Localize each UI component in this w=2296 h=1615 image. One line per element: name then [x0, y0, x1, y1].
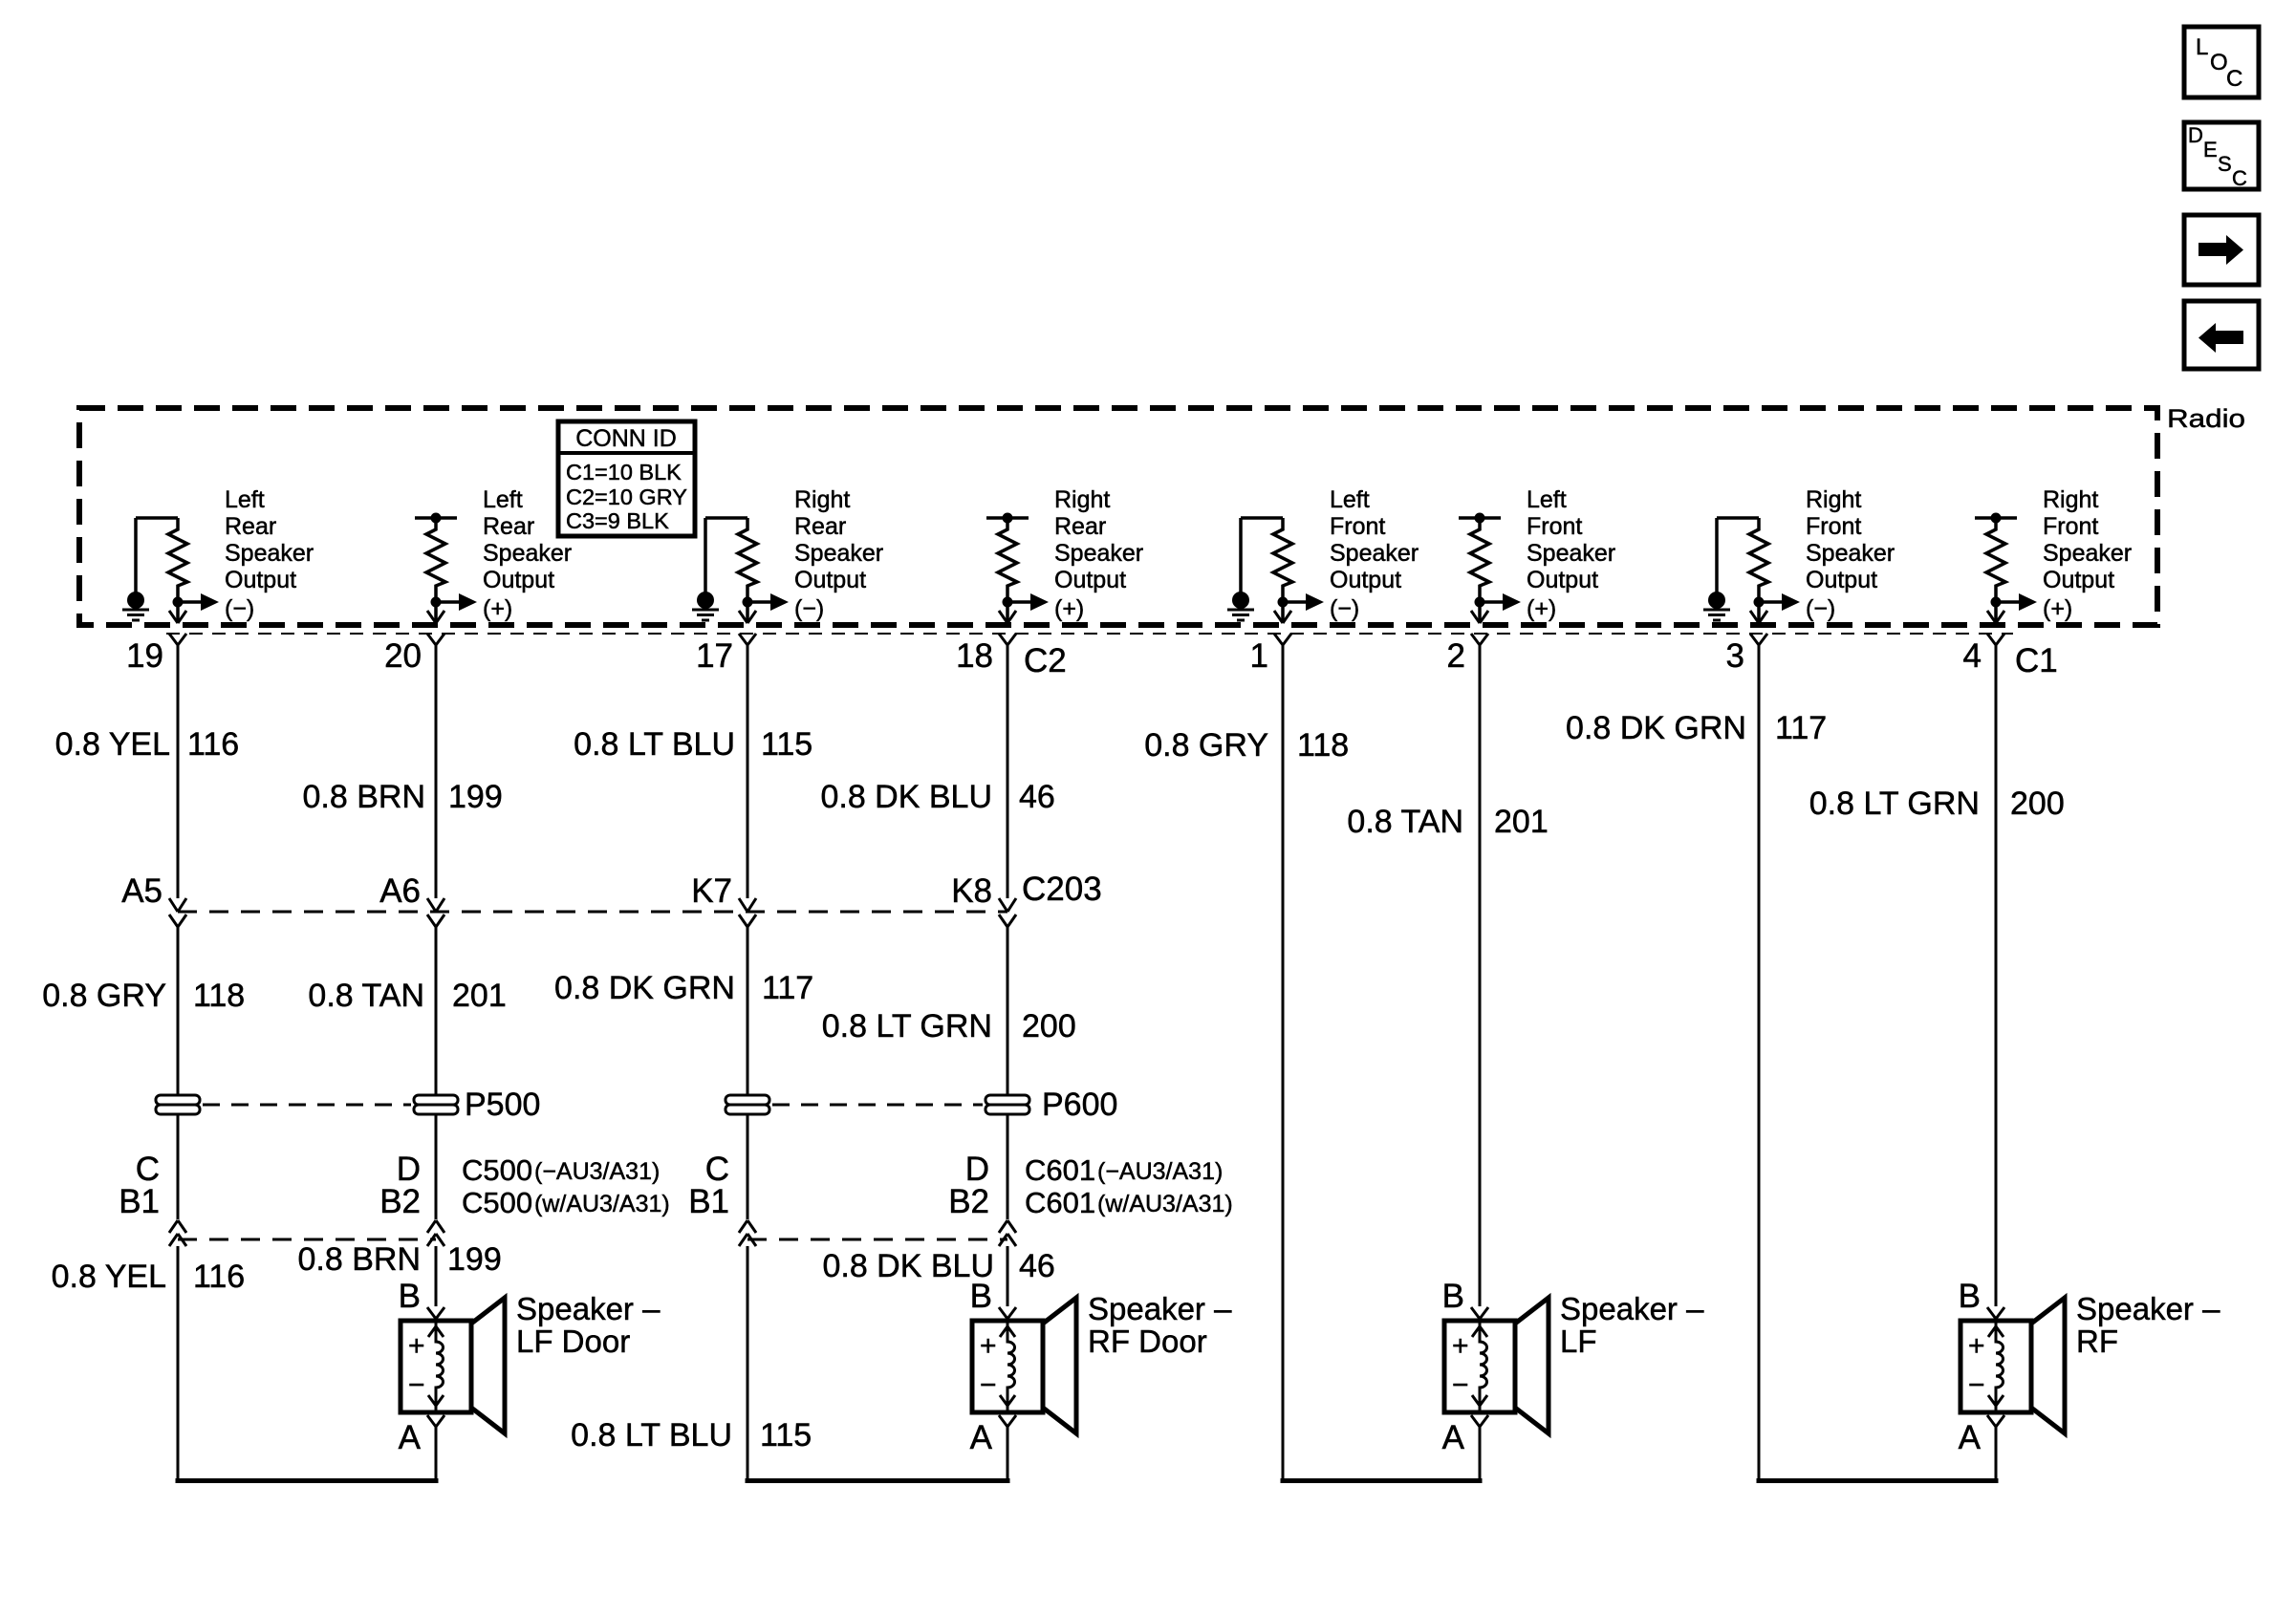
ground symbol right front (-) [1703, 592, 1730, 620]
svg-text:18: 18 [956, 637, 993, 675]
svg-text:(−): (−) [1330, 595, 1359, 622]
wire label 0.8 GRY 118 row2 [42, 978, 245, 1014]
connector Y terminal pin 2 [1471, 634, 1488, 645]
svg-text:Output: Output [225, 567, 296, 593]
arrow into C203 crossing col 4 [999, 898, 1016, 912]
connector C1 label [2015, 642, 2058, 679]
chevron below C203 crossing col 2 [427, 915, 444, 927]
svg-text:P600: P600 [1042, 1087, 1117, 1123]
down arrow to radio border left front (-) [1274, 611, 1291, 623]
svg-text:+: + [1968, 1330, 1985, 1362]
junction dot and output arrow left rear (+) [431, 593, 513, 622]
svg-text:117: 117 [1775, 710, 1827, 746]
speaker B chevron RF [1987, 1307, 2004, 1319]
wire label 0.8 LT BLU 115 row1 [574, 726, 812, 763]
connector label C203 [1022, 871, 1102, 908]
speaker RF coil [1988, 1322, 2004, 1411]
svg-text:D: D [2188, 123, 2203, 147]
svg-text:LF Door: LF Door [516, 1324, 630, 1359]
wire segment circuit 117 DK GRN radio to bottom route [1758, 645, 1761, 1483]
connector Y terminal pin 18 [999, 634, 1016, 645]
svg-text:(+): (+) [2043, 595, 2072, 622]
wire segment P500/P600 to C500/C601 col 2 [435, 1114, 438, 1219]
wire stub with junction dot left front (+) [1459, 513, 1501, 524]
svg-text:A: A [970, 1419, 993, 1456]
svg-text:Rear: Rear [1054, 513, 1106, 540]
bottom return wire pair 2 [746, 1478, 1010, 1483]
LOC icon box [2184, 27, 2259, 97]
svg-text:115: 115 [761, 726, 812, 763]
resistor left rear (-) speaker output [168, 518, 187, 622]
wire label 0.8 LT GRN 200 row1 [1809, 786, 2065, 822]
resistor left front (-) speaker output [1273, 518, 1292, 622]
svg-text:Speaker: Speaker [1806, 540, 1895, 567]
label text left front (-) speaker output [1330, 486, 1419, 593]
svg-text:117: 117 [762, 970, 813, 1006]
svg-text:200: 200 [1022, 1008, 1076, 1044]
P600 dashed link and label [772, 1087, 1117, 1123]
svg-text:E: E [2203, 138, 2218, 161]
svg-text:Left: Left [1330, 486, 1370, 513]
svg-text:Output: Output [794, 567, 866, 593]
wire segment circuit 201 TAN radio to speaker B [1479, 645, 1482, 1306]
double chevron at C500/C601 col 4 [999, 1220, 1016, 1246]
Radio label [2167, 404, 2245, 433]
svg-text:Speaker: Speaker [1330, 540, 1419, 567]
down arrow to radio border left front (+) [1471, 611, 1488, 623]
svg-text:4: 4 [1963, 637, 1982, 675]
arrow into C203 crossing col 3 [739, 898, 756, 912]
terminal label A6 [379, 872, 421, 910]
svg-text:46: 46 [1019, 1248, 1055, 1284]
connector Y terminal pin 20 [427, 634, 444, 645]
svg-text:Rear: Rear [483, 513, 534, 540]
svg-text:0.8 DK GRN: 0.8 DK GRN [554, 970, 735, 1006]
svg-text:CONN ID: CONN ID [575, 425, 677, 452]
svg-text:B1: B1 [688, 1183, 729, 1220]
resistor left front (+) speaker output [1470, 518, 1489, 622]
svg-text:Output: Output [1806, 567, 1877, 593]
svg-text:0.8 LT BLU: 0.8 LT BLU [574, 726, 735, 763]
svg-text:20: 20 [384, 637, 422, 675]
svg-text:L: L [2196, 34, 2208, 60]
svg-text:118: 118 [1297, 727, 1349, 764]
resistor right front (+) speaker output [1986, 518, 2005, 622]
arrow into C203 crossing col 1 [169, 898, 186, 912]
svg-text:RF: RF [2076, 1324, 2118, 1359]
svg-text:0.8 YEL: 0.8 YEL [55, 726, 170, 763]
svg-text:Speaker –: Speaker – [2076, 1291, 2220, 1326]
svg-text:B1: B1 [119, 1183, 160, 1220]
wire segment C203 to P500/P600 col 1 [177, 927, 180, 1095]
junction dot and output arrow right front (+) [1991, 593, 2073, 622]
terminal label A speaker LF [1442, 1419, 1465, 1456]
svg-text:B2: B2 [379, 1183, 421, 1220]
speaker RF box [1960, 1321, 2031, 1412]
speaker LF box [1444, 1321, 1515, 1412]
wire label 0.8 DK GRN 117 row1 [1566, 710, 1827, 746]
wire stub with junction dot left rear (+) [415, 513, 457, 524]
svg-text:(+): (+) [483, 595, 512, 622]
svg-text:0.8 DK GRN: 0.8 DK GRN [1566, 710, 1746, 746]
label text right rear (-) speaker output [794, 486, 883, 593]
pass-through grommet P500 left [156, 1095, 200, 1114]
speaker name label Speaker - RF [2076, 1291, 2220, 1359]
svg-text:0.8 LT GRN: 0.8 LT GRN [822, 1008, 992, 1044]
terminal label K8 [951, 872, 992, 910]
svg-text:−: − [980, 1369, 997, 1401]
bottom return wire pair 3 [1281, 1478, 1483, 1483]
svg-text:C2: C2 [1024, 642, 1067, 679]
svg-text:Right: Right [1806, 486, 1861, 513]
svg-text:B: B [970, 1278, 992, 1315]
svg-text:B: B [399, 1278, 421, 1315]
resistor right rear (+) speaker output [998, 518, 1017, 622]
terminal label C (C601) [705, 1151, 729, 1188]
svg-text:C1: C1 [2015, 642, 2058, 679]
pass-through grommet P500 right [414, 1095, 458, 1114]
DESC icon box [2184, 122, 2259, 190]
wire label 0.8 DK BLU 46 row3 [822, 1248, 1054, 1284]
wire from ground to resistor left rear (-) [136, 518, 178, 592]
bottom return wire pair 1 [176, 1478, 439, 1483]
speaker B chevron LF Door [427, 1307, 444, 1319]
svg-text:(−): (−) [1806, 595, 1835, 622]
svg-text:Output: Output [1330, 567, 1401, 593]
label text right front (+) speaker output [2043, 486, 2132, 593]
wire from ground to resistor right rear (-) [705, 518, 747, 592]
connector label C601 row1 [1025, 1153, 1223, 1187]
wire label 0.8 LT GRN 200 row2 [822, 1008, 1076, 1044]
down arrow to radio border right front (-) [1750, 611, 1767, 623]
double chevron at C500/C601 col 2 [427, 1220, 444, 1246]
svg-text:0.8 BRN: 0.8 BRN [303, 779, 426, 815]
svg-text:Right: Right [1054, 486, 1110, 513]
svg-text:A: A [1442, 1419, 1465, 1456]
terminal label B speaker RF Door [970, 1278, 992, 1315]
wire label 0.8 YEL 116 row1 [55, 726, 240, 763]
speaker A chevron LF Door [427, 1415, 444, 1427]
svg-text:LF: LF [1560, 1324, 1597, 1359]
svg-text:Left: Left [483, 486, 523, 513]
wire label 0.8 TAN 201 row2 [308, 978, 506, 1014]
wire segment P500/P600 to C500/C601 col 3 [747, 1114, 749, 1219]
terminal label B2 (C601) [948, 1183, 989, 1220]
resistor right front (-) speaker output [1749, 518, 1768, 622]
terminal label A speaker RF [1959, 1419, 1982, 1456]
double chevron at C500/C601 col 3 [739, 1220, 756, 1246]
svg-text:Speaker –: Speaker – [516, 1291, 661, 1326]
wire speaker A LF Door down [435, 1427, 438, 1483]
terminal label B2 (C500) [379, 1183, 421, 1220]
wire stub with junction dot right rear (+) [986, 513, 1029, 524]
chevron below C203 crossing col 1 [169, 915, 186, 927]
connector Y terminal pin 4 [1987, 634, 2004, 645]
svg-text:1: 1 [1250, 637, 1268, 675]
svg-text:0.8 GRY: 0.8 GRY [1144, 727, 1268, 764]
ground symbol right rear (-) [692, 592, 719, 620]
wire segment circuit 118 GRY radio to bottom route [1282, 645, 1285, 1483]
svg-text:201: 201 [1494, 804, 1549, 840]
speaker A chevron RF Door [999, 1415, 1016, 1427]
svg-text:K8: K8 [951, 872, 992, 910]
svg-text:Speaker –: Speaker – [1088, 1291, 1232, 1326]
wire segment col 1 down to bottom route [177, 1246, 180, 1483]
speaker name label Speaker - RF Door [1088, 1291, 1232, 1359]
svg-text:0.8 YEL: 0.8 YEL [52, 1259, 166, 1295]
wire segment P500/P600 to C500/C601 col 4 [1007, 1114, 1009, 1219]
svg-text:(+): (+) [1054, 595, 1084, 622]
wire segment circuit 200 LT GRN radio to speaker B [1995, 645, 1998, 1306]
connector label C601 row2 [1025, 1186, 1233, 1219]
double chevron at C500/C601 col 1 [169, 1220, 186, 1246]
speaker A chevron RF [1987, 1415, 2004, 1427]
wire label 0.8 BRN 199 row1 [303, 779, 503, 815]
svg-text:Radio: Radio [2167, 404, 2245, 433]
wire speaker A LF down [1479, 1427, 1482, 1483]
svg-text:C500: C500 [462, 1186, 532, 1219]
svg-text:Speaker: Speaker [1054, 540, 1143, 567]
junction dot and output arrow left front (+) [1475, 593, 1557, 622]
svg-text:−: − [1452, 1369, 1469, 1401]
svg-text:46: 46 [1019, 779, 1055, 815]
svg-text:116: 116 [187, 726, 239, 763]
svg-text:Left: Left [1527, 486, 1567, 513]
arrow into C203 crossing col 2 [427, 898, 444, 912]
speaker RF cone [2031, 1298, 2065, 1433]
svg-text:199: 199 [448, 779, 503, 815]
connector label C500 row2 [462, 1186, 670, 1219]
svg-text:C3=9 BLK: C3=9 BLK [566, 508, 669, 533]
svg-text:Left: Left [225, 486, 265, 513]
speaker B chevron LF [1471, 1307, 1488, 1319]
pin number 1 [1250, 637, 1268, 675]
connector Y terminal pin 19 [169, 634, 186, 645]
svg-text:Front: Front [1806, 513, 1861, 540]
down arrow to radio border right rear (+) [999, 611, 1016, 623]
svg-text:Speaker: Speaker [2043, 540, 2132, 567]
wire segment C203 to P500/P600 col 2 [435, 927, 438, 1095]
connector C2 label [1024, 642, 1067, 679]
svg-text:0.8 BRN: 0.8 BRN [298, 1241, 422, 1278]
svg-text:0.8 LT GRN: 0.8 LT GRN [1809, 786, 1980, 822]
svg-text:Speaker: Speaker [483, 540, 572, 567]
speaker LF Door box [401, 1321, 471, 1412]
svg-text:115: 115 [760, 1417, 812, 1453]
svg-text:C: C [2232, 166, 2247, 190]
connector Y terminal pin 3 [1750, 634, 1767, 645]
wire segment col 3 down to bottom route [747, 1246, 749, 1483]
junction dot and output arrow right rear (-) [743, 593, 825, 622]
svg-text:Front: Front [1330, 513, 1385, 540]
C203 in-line connector dashed line [178, 911, 1007, 914]
junction dot and output arrow right front (-) [1754, 593, 1836, 622]
terminal label B1 (C601) [688, 1183, 729, 1220]
pin number 2 [1447, 637, 1465, 675]
chevron below C203 crossing col 3 [739, 915, 756, 927]
svg-text:3: 3 [1726, 637, 1744, 675]
connector label C500 row1 [462, 1153, 660, 1187]
wire label 0.8 TAN 201 row1 [1347, 804, 1548, 840]
svg-text:S: S [2218, 152, 2232, 176]
speaker name label Speaker - LF Door [516, 1291, 661, 1359]
svg-text:Front: Front [1527, 513, 1582, 540]
svg-text:B2: B2 [948, 1183, 989, 1220]
svg-text:C601: C601 [1025, 1186, 1095, 1219]
label text right front (-) speaker output [1806, 486, 1895, 593]
svg-text:Rear: Rear [794, 513, 846, 540]
wire segment circuit 199 BRN radio to C203 [435, 645, 438, 898]
svg-text:RF Door: RF Door [1088, 1324, 1207, 1359]
wire speaker A RF down [1995, 1427, 1998, 1483]
radio connector C2/C1 thin dashed line [166, 633, 2013, 635]
svg-text:O: O [2210, 50, 2228, 75]
svg-text:K7: K7 [691, 872, 732, 910]
wire label 0.8 GRY 118 row1 [1144, 727, 1349, 764]
svg-text:+: + [980, 1330, 997, 1362]
label text left rear (-) speaker output [225, 486, 314, 593]
svg-text:0.8 DK BLU: 0.8 DK BLU [820, 779, 992, 815]
wire segment P500/P600 to C500/C601 col 1 [177, 1114, 180, 1219]
wire segment circuit 116 YEL radio to C203 [177, 645, 180, 898]
svg-text:(w/AU3/A31): (w/AU3/A31) [534, 1191, 670, 1217]
svg-text:+: + [1452, 1330, 1469, 1362]
svg-text:Output: Output [483, 567, 554, 593]
wire label 0.8 YEL 116 row3 [52, 1259, 246, 1295]
P500 dashed link and label [203, 1087, 540, 1123]
svg-text:0.8 DK BLU: 0.8 DK BLU [822, 1248, 994, 1284]
C500 in-line connector dashed line [178, 1238, 436, 1241]
terminal label D (C601) [965, 1151, 989, 1188]
terminal label C (C500) [136, 1151, 160, 1188]
CONN ID table [558, 421, 695, 536]
wire from ground to resistor right front (-) [1717, 518, 1759, 592]
terminal label B speaker RF [1959, 1278, 1981, 1315]
wire from ground to resistor left front (-) [1241, 518, 1283, 592]
svg-text:200: 200 [2010, 786, 2065, 822]
down arrow to radio border right rear (-) [739, 611, 756, 623]
svg-text:Rear: Rear [225, 513, 276, 540]
speaker RF Door cone [1043, 1298, 1076, 1433]
svg-text:2: 2 [1447, 637, 1465, 675]
Radio dashed outline box [79, 408, 2157, 625]
down arrow to radio border right front (+) [1987, 611, 2004, 623]
speaker LF coil [1472, 1322, 1487, 1411]
wire segment C203 to P500/P600 col 4 [1007, 927, 1009, 1095]
pass-through grommet P600 left [726, 1095, 769, 1114]
svg-text:C203: C203 [1022, 871, 1102, 908]
label text left front (+) speaker output [1527, 486, 1615, 593]
svg-text:−: − [1968, 1369, 1985, 1401]
svg-text:A6: A6 [379, 872, 421, 910]
down arrow to radio border left rear (-) [169, 611, 186, 623]
terminal label A speaker LF Door [399, 1419, 422, 1456]
wire segment circuit 115 LT BLU radio to C203 [747, 645, 749, 898]
svg-text:(+): (+) [1527, 595, 1556, 622]
down arrow to radio border left rear (+) [427, 611, 444, 623]
svg-text:Front: Front [2043, 513, 2098, 540]
ground symbol left rear (-) [122, 592, 149, 620]
resistor right rear (-) speaker output [738, 518, 757, 622]
svg-text:Speaker: Speaker [1527, 540, 1615, 567]
label text right rear (+) speaker output [1054, 486, 1143, 593]
terminal label B1 (C500) [119, 1183, 160, 1220]
svg-text:B: B [1442, 1278, 1464, 1315]
wire label 0.8 BRN 199 row3 [298, 1241, 502, 1278]
speaker name label Speaker - LF [1560, 1291, 1704, 1359]
svg-text:Output: Output [1527, 567, 1598, 593]
svg-text:Speaker: Speaker [225, 540, 314, 567]
terminal label B speaker LF Door [399, 1278, 421, 1315]
speaker LF Door coil [428, 1322, 444, 1411]
right arrow icon box [2184, 215, 2259, 285]
pin number 20 [384, 637, 422, 675]
svg-text:Right: Right [2043, 486, 2098, 513]
junction dot and output arrow left front (-) [1278, 593, 1360, 622]
pin number 3 [1726, 637, 1744, 675]
speaker RF Door box [972, 1321, 1043, 1412]
svg-text:Speaker –: Speaker – [1560, 1291, 1704, 1326]
svg-text:(−): (−) [794, 595, 824, 622]
svg-text:C601: C601 [1025, 1153, 1095, 1187]
svg-text:A5: A5 [121, 872, 162, 910]
ground symbol left front (-) [1227, 592, 1254, 620]
svg-text:19: 19 [126, 637, 163, 675]
svg-text:(−AU3/A31): (−AU3/A31) [1097, 1158, 1223, 1185]
junction dot and output arrow left rear (-) [173, 593, 255, 622]
svg-text:Right: Right [794, 486, 850, 513]
svg-text:(−AU3/A31): (−AU3/A31) [534, 1158, 660, 1185]
svg-text:(w/AU3/A31): (w/AU3/A31) [1097, 1191, 1233, 1217]
svg-text:A: A [399, 1419, 422, 1456]
wire label 0.8 DK BLU 46 row1 [820, 779, 1054, 815]
connector Y terminal pin 17 [739, 634, 756, 645]
speaker A chevron LF [1471, 1415, 1488, 1427]
speaker LF cone [1515, 1298, 1549, 1433]
svg-text:0.8 TAN: 0.8 TAN [1347, 804, 1463, 840]
junction dot and output arrow right rear (+) [1003, 593, 1085, 622]
svg-text:Speaker: Speaker [794, 540, 883, 567]
wire segment col 4 to speaker B [1007, 1246, 1009, 1306]
wire label 0.8 DK GRN 117 row2 [554, 970, 813, 1006]
svg-text:P500: P500 [465, 1087, 540, 1123]
pin number 18 [956, 637, 993, 675]
wire segment circuit 46 DK BLU radio to C203 [1007, 645, 1009, 898]
svg-text:Output: Output [2043, 567, 2114, 593]
speaker RF Door coil [1000, 1322, 1015, 1411]
svg-text:+: + [408, 1330, 425, 1362]
svg-text:17: 17 [696, 637, 733, 675]
terminal label A5 [121, 872, 162, 910]
pin number 19 [126, 637, 163, 675]
terminal label K7 [691, 872, 732, 910]
svg-text:0.8 TAN: 0.8 TAN [308, 978, 424, 1014]
speaker LF Door cone [471, 1298, 505, 1433]
terminal label B speaker LF [1442, 1278, 1464, 1315]
C601 in-line connector dashed line [747, 1238, 1007, 1241]
svg-text:118: 118 [193, 978, 245, 1014]
svg-text:116: 116 [193, 1259, 245, 1295]
svg-text:−: − [408, 1369, 425, 1401]
svg-text:C2=10 GRY: C2=10 GRY [566, 484, 687, 509]
pin number 17 [696, 637, 733, 675]
svg-text:C: C [2226, 66, 2242, 92]
svg-text:A: A [1959, 1419, 1982, 1456]
svg-text:C1=10 BLK: C1=10 BLK [566, 460, 682, 484]
wire stub with junction dot right front (+) [1975, 513, 2017, 524]
terminal label A speaker RF Door [970, 1419, 993, 1456]
svg-text:0.8 GRY: 0.8 GRY [42, 978, 166, 1014]
